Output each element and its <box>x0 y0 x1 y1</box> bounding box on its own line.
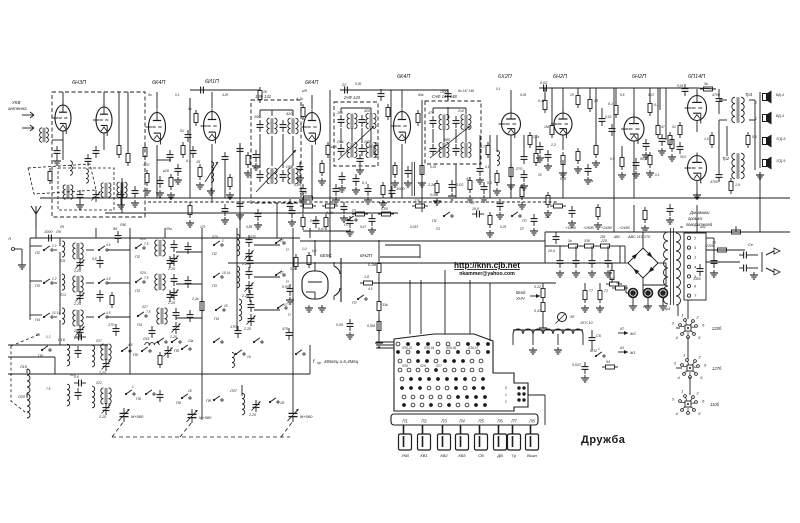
svg-text:2чФ 143: 2чФ 143 <box>343 95 361 100</box>
wire <box>479 135 481 164</box>
svg-text:2-25: 2-25 <box>241 262 249 266</box>
svg-text:51: 51 <box>672 125 676 129</box>
svg-text:4 5: 4 5 <box>106 311 111 315</box>
input arrow <box>530 294 540 298</box>
trimmer 2-25 <box>245 281 254 293</box>
svg-text:П: П <box>286 280 289 284</box>
shielded lead <box>411 162 413 196</box>
svg-text:0,02: 0,02 <box>540 81 548 85</box>
wire <box>719 119 727 121</box>
svg-text:Дружба: Дружба <box>581 434 626 446</box>
svg-text:Л4Б: Л4Б <box>285 165 294 169</box>
wire <box>626 292 629 294</box>
wire <box>582 334 584 345</box>
magic eye tube 6E5C <box>302 271 328 299</box>
wire <box>642 232 644 248</box>
UKV antenna terminal <box>22 114 34 116</box>
capacitor <box>599 114 606 126</box>
svg-text:П7: П7 <box>352 209 356 213</box>
wire <box>8 344 108 346</box>
svg-text:15: 15 <box>247 355 251 359</box>
svg-text:ЛО: ЛО <box>642 305 649 309</box>
capacitor <box>300 184 307 196</box>
wire <box>176 317 202 319</box>
wire <box>201 228 203 420</box>
tuning arrow <box>256 150 296 192</box>
wire <box>292 136 294 166</box>
loudspeaker VD-4 #1 <box>763 91 772 104</box>
tuning capacitor C2 <box>187 409 198 423</box>
capacitor <box>497 199 504 211</box>
wire <box>643 284 665 286</box>
capacitor <box>472 211 484 218</box>
ground <box>584 177 592 184</box>
UKV inner box <box>58 168 114 210</box>
coil L31a <box>288 168 298 184</box>
resistor 0.5M <box>377 318 381 334</box>
wire <box>302 198 304 213</box>
wire <box>754 100 756 170</box>
resistor <box>117 142 121 158</box>
svg-text:Л16: Л16 <box>57 338 66 342</box>
svg-text:18: 18 <box>280 401 284 405</box>
capacitor <box>341 202 348 214</box>
capacitor <box>449 180 456 192</box>
wire <box>665 263 667 285</box>
ground <box>332 197 340 204</box>
coil L16 <box>67 344 70 366</box>
wire <box>373 282 556 284</box>
ground <box>588 270 596 277</box>
svg-text:5: 5 <box>700 375 703 380</box>
ground <box>568 220 576 227</box>
arrow Zh2 <box>618 331 628 335</box>
svg-text:1б: 1б <box>594 99 599 103</box>
wire <box>613 88 615 232</box>
capacitor <box>248 300 255 312</box>
power transformer Tr1 primary <box>664 232 669 241</box>
wire <box>633 158 635 198</box>
svg-text:Л17: Л17 <box>95 339 102 343</box>
svg-text:Л25: Л25 <box>139 271 146 275</box>
resistor <box>648 100 652 116</box>
ground <box>226 192 234 199</box>
svg-text:0,05: 0,05 <box>336 323 343 327</box>
ground <box>375 340 383 347</box>
capacitor <box>338 115 345 127</box>
svg-text:0,1: 0,1 <box>608 102 613 106</box>
svg-text:http://knn.cjb.net: http://knn.cjb.net <box>454 261 520 270</box>
svg-text:0,02: 0,02 <box>605 115 612 119</box>
capacitor <box>280 120 287 132</box>
capacitor <box>149 326 156 338</box>
wire <box>545 245 565 247</box>
svg-text:Се: Се <box>748 243 753 247</box>
resistor <box>495 170 499 186</box>
svg-text:Тб: Тб <box>712 241 716 245</box>
resistor <box>550 122 554 138</box>
wire <box>633 141 635 158</box>
wire <box>545 262 620 264</box>
ground <box>476 177 484 184</box>
wire <box>376 347 394 349</box>
resistor <box>352 212 368 216</box>
wire <box>259 134 261 168</box>
resistor 54 <box>602 365 618 369</box>
svg-text:3: 3 <box>674 361 677 366</box>
wire <box>311 145 313 162</box>
svg-text:к20: к20 <box>163 169 170 173</box>
resistor <box>198 164 202 180</box>
wire <box>544 88 546 100</box>
svg-text:АВС: АВС <box>613 235 621 239</box>
resistor <box>110 292 114 308</box>
ground <box>658 148 666 155</box>
capacitor <box>85 154 92 166</box>
wire <box>432 108 434 113</box>
capacitor <box>545 150 552 162</box>
svg-text:Л27: Л27 <box>435 364 442 368</box>
svg-text:17: 17 <box>280 239 284 243</box>
svg-text:КВ2: КВ2 <box>440 453 448 458</box>
svg-text:1: 1 <box>681 313 683 318</box>
resistor <box>656 122 660 138</box>
ground <box>174 177 182 184</box>
svg-text:П8: П8 <box>529 419 535 424</box>
svg-text:470: 470 <box>143 163 150 167</box>
svg-text:2: 2 <box>504 400 507 404</box>
svg-text:7 8: 7 8 <box>144 276 149 280</box>
wire <box>562 88 564 113</box>
ground <box>572 270 580 277</box>
svg-text:1к: 1к <box>590 179 594 183</box>
UKV unit shield box <box>52 92 145 217</box>
ground <box>536 155 544 162</box>
capacitor <box>521 152 528 164</box>
coil L6 <box>86 169 88 183</box>
wire <box>489 135 491 198</box>
svg-text:ач: ач <box>680 225 684 229</box>
capacitor <box>75 388 82 400</box>
svg-text:220: 220 <box>600 239 607 243</box>
wire <box>86 282 94 284</box>
power transformer Tr1 secondary <box>676 233 681 242</box>
svg-text:71: 71 <box>604 289 608 293</box>
capacitor <box>97 290 104 302</box>
wire <box>401 144 403 160</box>
wire <box>340 128 342 143</box>
wire <box>687 300 689 319</box>
capacitor <box>333 184 340 196</box>
output transformer Tr2 <box>732 153 744 179</box>
svg-text:КН2: КН2 <box>590 349 598 353</box>
ground <box>318 178 326 185</box>
resistor <box>576 92 580 108</box>
trimmer 2-25 <box>170 288 179 300</box>
wire <box>361 128 363 143</box>
ground <box>518 202 526 209</box>
capacitor <box>353 174 360 186</box>
svg-text:6К4П: 6К4П <box>397 74 410 80</box>
wire <box>697 231 760 233</box>
capacitor <box>537 142 544 154</box>
ground <box>346 332 354 339</box>
svg-text:4: 4 <box>675 335 678 340</box>
capacitor <box>633 158 640 170</box>
wire <box>706 249 745 251</box>
svg-text:4: 4 <box>677 375 680 380</box>
resistor <box>169 174 173 190</box>
wire <box>659 88 661 110</box>
capacitor <box>297 162 304 174</box>
wire <box>542 315 544 325</box>
wire <box>236 228 238 330</box>
wire <box>390 90 392 198</box>
wire <box>105 212 398 214</box>
ground <box>507 182 515 189</box>
appendix contacts <box>517 386 520 389</box>
resistor <box>576 148 580 164</box>
svg-text:Л15: Л15 <box>142 337 149 341</box>
resistor <box>301 104 305 120</box>
ground <box>644 303 652 310</box>
svg-text:2-25: 2-25 <box>169 335 177 339</box>
svg-text:127б: 127б <box>712 366 722 371</box>
resistor 220 <box>597 244 613 248</box>
svg-text:50,0: 50,0 <box>648 93 654 97</box>
resistor <box>594 142 598 158</box>
wire <box>241 385 243 396</box>
switch <box>141 347 151 352</box>
loudspeaker 1GD-9 #2 <box>763 157 772 170</box>
svg-text:3б: 3б <box>570 315 575 319</box>
svg-text:0,33: 0,33 <box>326 211 333 215</box>
coil Л13a <box>73 310 83 326</box>
svg-text:13 14: 13 14 <box>52 311 60 315</box>
coil L31 <box>267 168 277 184</box>
svg-text:220б: 220б <box>711 326 722 331</box>
capacitor 1000 <box>44 235 56 242</box>
svg-text:1000: 1000 <box>440 90 448 94</box>
coil arrow <box>205 162 218 182</box>
wire <box>378 276 380 298</box>
svg-text:1 2: 1 2 <box>52 244 57 248</box>
wire <box>59 252 61 315</box>
resistor 1.9 <box>729 178 733 194</box>
capacitor <box>365 184 372 196</box>
filter capacitor 20.0 <box>557 256 564 268</box>
wire <box>224 163 226 198</box>
svg-text:2-25: 2-25 <box>73 269 81 273</box>
ground <box>710 270 718 277</box>
wire <box>239 143 241 238</box>
coil L32 <box>347 114 357 129</box>
wire <box>496 135 498 152</box>
resistor 71 <box>598 287 602 303</box>
svg-text:50,0: 50,0 <box>680 155 686 159</box>
capacitor <box>246 267 253 279</box>
resistor 1.0 <box>294 254 298 270</box>
ground <box>596 305 604 312</box>
wire <box>523 135 525 152</box>
volume potentiometer <box>556 313 567 324</box>
svg-text:6,8: 6,8 <box>620 93 625 97</box>
wire <box>735 226 737 232</box>
IF transformer T1 <box>117 182 127 198</box>
wire <box>329 240 331 258</box>
tube V10 6P14P <box>685 153 707 184</box>
capacitor 4700 <box>716 94 723 106</box>
coil <box>232 353 235 368</box>
wire <box>584 283 586 287</box>
svg-text:nkammer@yahoo.com: nkammer@yahoo.com <box>459 271 515 277</box>
ground <box>574 166 582 173</box>
capacitor <box>173 308 180 320</box>
wire <box>726 126 728 156</box>
svg-text:0,05: 0,05 <box>282 285 289 289</box>
wire <box>59 320 61 345</box>
wire <box>385 244 420 246</box>
wire <box>40 197 790 199</box>
switch <box>145 390 155 395</box>
switch П2 <box>135 244 145 249</box>
wire <box>557 334 559 345</box>
svg-text:2: 2 <box>693 237 697 241</box>
wire <box>676 327 680 329</box>
wire <box>62 131 64 160</box>
svg-text:0,85: 0,85 <box>294 183 302 187</box>
wire <box>329 90 331 240</box>
capacitor 470 <box>286 328 293 340</box>
resistor 6.8 <box>307 252 311 268</box>
ground <box>288 219 296 226</box>
wire <box>642 285 644 293</box>
svg-text:0,25: 0,25 <box>430 165 436 169</box>
svg-text:Тр3: Тр3 <box>745 92 753 97</box>
svg-text:6: 6 <box>704 362 707 367</box>
capacitor <box>118 190 125 202</box>
switch bar <box>391 414 538 425</box>
wire <box>271 136 273 166</box>
svg-text:Юм: Юм <box>418 93 424 97</box>
svg-text:3: 3 <box>672 321 675 326</box>
resistor 3k <box>700 87 716 91</box>
capacitor <box>553 232 560 244</box>
svg-text:к2б: к2б <box>302 89 307 93</box>
svg-text:П6: П6 <box>497 419 503 424</box>
wire <box>157 159 171 161</box>
svg-text:0,1: 0,1 <box>186 159 191 163</box>
resistor <box>520 184 524 200</box>
capacitor <box>222 152 229 164</box>
switch П2 <box>213 241 223 246</box>
svg-text:1,9: 1,9 <box>735 183 740 187</box>
svg-text:1,6: 1,6 <box>704 137 709 141</box>
ground <box>641 225 649 232</box>
capacitor <box>157 390 164 402</box>
svg-text:П3: П3 <box>441 419 447 424</box>
switch П4 <box>137 312 147 317</box>
tuning arrow <box>430 126 470 158</box>
ground <box>418 180 426 187</box>
ground <box>368 227 376 234</box>
svg-text:7 8: 7 8 <box>144 242 149 246</box>
coil L17 <box>92 345 95 367</box>
filter capacitor 20.0 <box>573 256 580 268</box>
resistor 5.6 <box>746 132 750 148</box>
svg-text:25: 25 <box>537 173 542 177</box>
svg-text:7 8: 7 8 <box>146 310 151 314</box>
selector rosette 220V <box>672 313 705 340</box>
resistor <box>435 180 439 196</box>
switch KN2 <box>595 352 605 357</box>
svg-text:4 5: 4 5 <box>106 277 111 281</box>
capacitor <box>481 182 488 194</box>
svg-text:П6: П6 <box>136 397 142 401</box>
svg-text:0,85: 0,85 <box>246 225 252 229</box>
wire <box>21 249 23 262</box>
svg-text:Л44: Л44 <box>336 140 343 144</box>
svg-text:ВД-4: ВД-4 <box>776 114 784 118</box>
capacitor <box>196 87 208 94</box>
wire <box>164 228 166 238</box>
wire <box>544 395 546 425</box>
ground <box>756 172 764 179</box>
capacitor <box>531 214 538 226</box>
svg-text:1 2: 1 2 <box>52 277 57 281</box>
coil L22 <box>92 386 95 408</box>
wire <box>228 262 600 264</box>
svg-text:220: 220 <box>73 329 80 333</box>
resistor <box>258 87 262 103</box>
capacitor <box>539 85 551 92</box>
resistor <box>188 202 192 218</box>
svg-text:+250б: +250б <box>583 226 595 230</box>
wire <box>35 228 37 238</box>
switch <box>275 271 285 276</box>
svg-text:ВД-4: ВД-4 <box>776 93 784 97</box>
tone choke winding <box>513 329 523 334</box>
resistor <box>486 142 490 158</box>
tube V5 6K4P <box>391 109 411 144</box>
capacitor 0.023 <box>582 362 589 374</box>
wire <box>624 246 626 263</box>
svg-text:1М: 1М <box>544 125 549 129</box>
svg-text:1: 1 <box>683 353 685 358</box>
wire <box>220 373 310 375</box>
resistor 270 <box>412 204 428 208</box>
switch П2 <box>43 246 53 251</box>
wire <box>528 394 545 396</box>
pilot lamp 2 <box>643 288 653 298</box>
svg-text:2: 2 <box>695 314 699 319</box>
coil Л11a <box>73 276 83 292</box>
switch plungers <box>403 425 405 434</box>
coil Л29 <box>237 234 240 256</box>
svg-text:f: f <box>313 359 315 365</box>
ground <box>143 188 151 195</box>
wire <box>276 203 278 238</box>
wire <box>696 181 698 190</box>
ground <box>356 167 364 174</box>
resistor <box>561 152 565 168</box>
trimmer <box>102 359 111 371</box>
wire <box>421 100 423 212</box>
svg-text:Л35,35: Л35,35 <box>445 346 456 350</box>
capacitor <box>711 256 718 268</box>
wire <box>455 164 457 198</box>
svg-text:5: 5 <box>698 411 701 416</box>
